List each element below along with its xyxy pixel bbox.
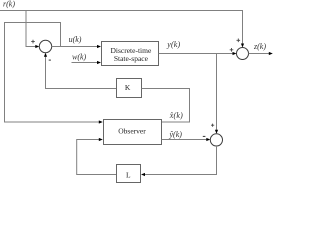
arrow z(k) output (269, 52, 273, 55)
arrow into L right (141, 173, 145, 176)
wire K output to S1 (46, 56, 117, 88)
arrow into observer input 1 (99, 120, 103, 123)
arrow into plant u input (97, 45, 101, 48)
svg-text:z(k): z(k) (253, 42, 266, 51)
wire y branch riser down to sum S3 (216, 54, 218, 131)
summing junction S3 (210, 134, 222, 146)
arrow into sum S1 left (35, 45, 39, 48)
plus sign at S2 left (230, 48, 234, 52)
svg-text:L: L (126, 170, 131, 179)
block L gain (117, 165, 141, 183)
svg-text:Observer: Observer (118, 127, 146, 136)
svg-text:w(k): w(k) (72, 53, 87, 62)
wire r drop to left sum S1 (26, 11, 36, 47)
arrow into plant w input (97, 61, 101, 64)
wire xhat to K (142, 89, 190, 123)
wire z(k) output (249, 53, 270, 55)
wire w(k) noise input (72, 62, 98, 64)
arrow into sum S3 top (215, 130, 218, 134)
arrow into observer input 2 (99, 138, 103, 141)
arrow into sum S1 bottom (44, 53, 47, 57)
wire u(k) from S1 to plant (52, 46, 98, 48)
summing junction S2 (237, 48, 249, 60)
minus sign at S3 (203, 135, 206, 137)
minus sign at S1 (49, 59, 51, 61)
wire L output to observer input 2 (77, 140, 116, 175)
block Observer (104, 120, 162, 145)
arrow into sum S3 left (206, 138, 210, 141)
svg-text:x̂(k): x̂(k) (169, 111, 183, 120)
wire r(k) top horizontal (0, 10, 243, 12)
block: Discrete-time State-space plant (102, 42, 159, 66)
plus sign at S2 top (237, 39, 241, 43)
svg-text:ŷ(k): ŷ(k) (169, 130, 183, 139)
wire r drop to sum S2 top (242, 10, 244, 44)
wire y(k) from plant to sum S2 (159, 53, 234, 55)
svg-text:State-space: State-space (114, 54, 149, 63)
arrow into sum S2 left (233, 52, 237, 55)
wire u into observer (5, 121, 100, 123)
wire u branch left drop (4, 22, 6, 123)
wire S3 output down to L (145, 146, 217, 175)
wire u branch riser (60, 22, 62, 47)
svg-text:y(k): y(k) (166, 40, 180, 49)
plus sign at S3 top (211, 124, 214, 127)
block K gain (117, 79, 142, 98)
svg-text:r(k): r(k) (3, 0, 15, 9)
plus sign at S1 (31, 40, 35, 44)
svg-text:K: K (125, 83, 131, 92)
arrow into sum S2 top (241, 44, 244, 48)
summing junction S1 (39, 40, 51, 52)
wire u branch top horizontal (4, 22, 61, 24)
wire yhat from observer to S3 (162, 139, 207, 141)
svg-text:u(k): u(k) (69, 35, 82, 44)
